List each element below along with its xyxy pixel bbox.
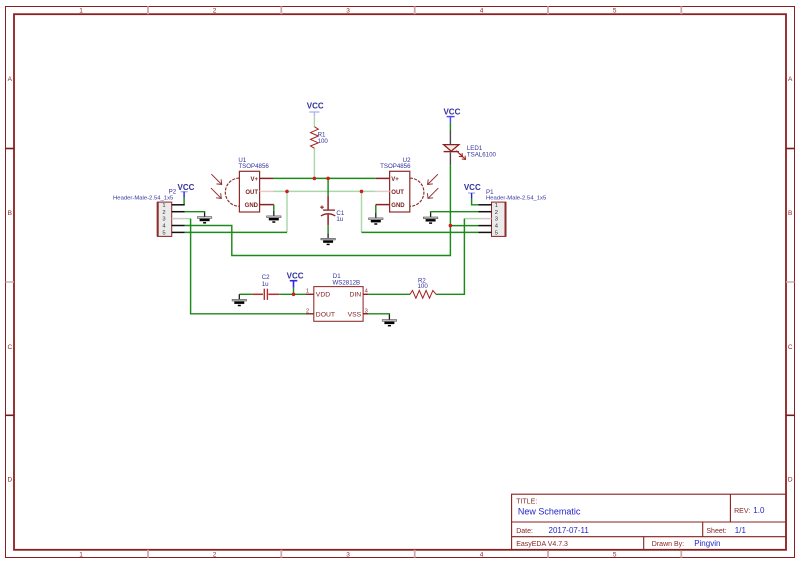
wire OUT net pale horizontal U1 to U2: [273, 190, 376, 192]
wire OUT net pale riser to P1 pin5 row: [361, 191, 363, 232]
D1 pin line 3 VSS: [363, 313, 368, 315]
svg-text:VSS: VSS: [348, 311, 362, 318]
svg-text:TSOP4856: TSOP4856: [238, 163, 269, 170]
wire C2 to ground: [239, 293, 252, 295]
svg-text:1: 1: [495, 203, 498, 209]
node junction VCC/C2/D1 VDD: [292, 293, 296, 297]
frame ruler ticks left: [6, 149, 15, 416]
svg-text:1/1: 1/1: [735, 526, 747, 535]
wire P1 pin2 to ground: [431, 211, 479, 214]
wire pale VCC to R1 top: [313, 116, 315, 126]
svg-text:B: B: [8, 210, 12, 217]
svg-text:Sheet:: Sheet:: [706, 528, 726, 535]
svg-text:1u: 1u: [336, 216, 343, 223]
svg-text:5: 5: [162, 231, 165, 237]
ground at P2 pin2: [197, 212, 211, 223]
U2 pin line V+: [376, 177, 390, 179]
svg-text:C: C: [788, 344, 793, 351]
ground at C2: [232, 294, 246, 305]
power VCC symbol at P2: [178, 183, 195, 198]
wire P2 pin3 riser down and across to DOUT: [191, 219, 306, 314]
IC U2 TSOP4856 body: [376, 171, 424, 212]
wire LED1 cathode down to pin4 junction: [449, 165, 451, 225]
D1 pin line 4 DIN: [363, 293, 368, 295]
wire P2 pin4 route to P1 pin4: [185, 226, 479, 256]
svg-text:3: 3: [346, 551, 350, 558]
svg-text:3: 3: [495, 217, 498, 223]
svg-text:2: 2: [495, 210, 498, 216]
svg-text:Pingvin: Pingvin: [694, 539, 720, 548]
wire VCC junction to D1 VDD: [279, 293, 306, 295]
LED1 TSAL6100 diode: [444, 131, 459, 166]
U1 pin line OUT pale: [260, 190, 273, 192]
svg-text:EasyEDA V4.7.3: EasyEDA V4.7.3: [516, 541, 568, 548]
IC D1 WS2812B body: [306, 287, 369, 322]
power VCC symbol at LED1: [443, 108, 460, 123]
svg-text:VCC: VCC: [287, 271, 304, 280]
U1 pin line GND: [260, 204, 274, 206]
wire pale R1 bottom to V+ rail: [313, 148, 315, 178]
svg-text:V+: V+: [391, 177, 399, 183]
svg-text:DIN: DIN: [349, 291, 361, 298]
svg-text:B: B: [788, 210, 792, 217]
svg-text:VCC: VCC: [443, 108, 460, 117]
svg-text:REV:: REV:: [734, 508, 750, 515]
frame ruler ticks bottom: [148, 550, 681, 558]
wire U2 GND elbow down: [375, 205, 377, 213]
wire C2 VCC stem lower part: [293, 288, 295, 295]
svg-text:3: 3: [346, 8, 350, 15]
svg-text:5: 5: [495, 231, 498, 237]
wire P2 pin3 pale stub: [185, 218, 191, 220]
svg-text:1: 1: [79, 551, 83, 558]
svg-text:TSOP4856: TSOP4856: [380, 163, 411, 170]
wire U1 GND elbow down: [273, 205, 275, 211]
svg-text:3: 3: [162, 217, 165, 223]
D1 pin line 1 VDD: [306, 293, 314, 295]
ground at C1: [321, 233, 335, 244]
frame zone letters right: [788, 76, 793, 484]
svg-text:A: A: [788, 76, 793, 83]
svg-text:4: 4: [480, 551, 484, 558]
U2 IR receive arrows: [427, 174, 438, 198]
svg-text:5: 5: [613, 8, 617, 15]
wire VCC net: V+ rail U1 to U2: [273, 177, 376, 179]
svg-text:1u: 1u: [262, 281, 269, 288]
node junction C1/V+ rail: [326, 177, 330, 181]
wire P1 pin3 pale stub: [464, 218, 478, 220]
svg-text:TITLE:: TITLE:: [516, 499, 537, 506]
svg-text:100: 100: [418, 283, 429, 290]
svg-text:VCC: VCC: [178, 183, 195, 192]
svg-text:2017-07-11: 2017-07-11: [549, 526, 590, 535]
svg-text:GND: GND: [245, 203, 259, 209]
svg-text:4: 4: [480, 8, 484, 15]
ground at U1 GND: [267, 211, 281, 222]
power VCC symbol at P1: [464, 183, 481, 199]
frame ruler ticks right: [786, 149, 795, 416]
svg-text:5: 5: [613, 551, 617, 558]
svg-text:2: 2: [213, 8, 217, 15]
frame zone numbers top: [79, 8, 617, 15]
WIRES: [184, 116, 478, 314]
node junction OUT/P1 pin5 riser: [360, 190, 364, 194]
node junction LED1 cathode/pin4 net: [449, 224, 453, 228]
svg-text:1: 1: [79, 8, 83, 15]
U2 pin line OUT pale: [376, 190, 390, 192]
U2 pin line GND: [376, 204, 390, 206]
wire OUT net pale riser to P2 pin5 row: [286, 191, 288, 232]
svg-text:2: 2: [306, 308, 309, 314]
wire VCC to LED1 anode: [449, 123, 451, 131]
ground at P1 pin2: [423, 212, 437, 223]
connector P1 Header-Male-2.54_1x5 body: [479, 202, 506, 236]
wire P2 pin5 to OUT riser: [185, 231, 287, 233]
capacitor C2: [253, 289, 280, 300]
wire C1 bottom to ground: [327, 225, 329, 233]
svg-text:TSAL6100: TSAL6100: [467, 152, 497, 159]
wire OUT riser to P1 pin5: [362, 231, 479, 233]
svg-text:OUT: OUT: [391, 190, 404, 196]
ground at D1 VSS: [382, 315, 396, 326]
node junction OUT/P2 pin5 riser: [285, 190, 289, 194]
power VCC symbol at R1 (pale): [307, 101, 324, 116]
resistor R1: [311, 127, 319, 149]
wire P2 pin1 to VCC: [183, 198, 185, 205]
P1 pin lines: [479, 205, 492, 233]
wire C1 top to V+ rail: [327, 178, 329, 196]
U1 IR receive arrows: [211, 174, 222, 198]
wire P2 pin2 to ground: [185, 211, 205, 214]
svg-text:2: 2: [213, 551, 217, 558]
svg-text:VCC: VCC: [307, 101, 324, 110]
D1 pin line 2 DOUT: [306, 313, 314, 315]
power VCC symbol at C2/D1: [287, 271, 304, 287]
title block: [512, 494, 786, 550]
LED1 emission arrows: [456, 151, 465, 160]
svg-text:C: C: [7, 344, 12, 351]
node junction R1/V+ rail: [313, 177, 317, 181]
IC U1 TSOP4856 body: [225, 171, 273, 212]
svg-text:Date:: Date:: [516, 528, 533, 535]
svg-text:1: 1: [306, 288, 309, 294]
frame zone numbers bottom: [79, 551, 617, 558]
svg-text:1: 1: [162, 203, 165, 209]
svg-text:A: A: [8, 76, 13, 83]
wire P1 pin3 riser down to R2: [436, 219, 464, 295]
svg-text:DOUT: DOUT: [316, 311, 335, 318]
svg-text:Drawn By:: Drawn By:: [652, 541, 684, 548]
svg-text:V+: V+: [250, 177, 258, 183]
svg-text:Header-Male-2.54_1x5: Header-Male-2.54_1x5: [486, 195, 547, 201]
capacitor C1 polarized: [320, 196, 335, 225]
svg-text:Header-Male-2.54_1x5: Header-Male-2.54_1x5: [113, 195, 174, 201]
svg-text:VCC: VCC: [464, 183, 481, 192]
P2 pin lines: [172, 205, 185, 233]
ground at U2 GND: [369, 213, 383, 224]
svg-text:VDD: VDD: [316, 291, 330, 298]
wire R2 to D1 DIN: [368, 293, 410, 295]
svg-text:New Schematic: New Schematic: [518, 506, 581, 516]
frame ruler ticks top: [148, 6, 681, 14]
wire P1 pin1 to VCC: [472, 199, 479, 205]
svg-text:OUT: OUT: [245, 190, 258, 196]
svg-text:GND: GND: [391, 203, 405, 209]
svg-text:3: 3: [365, 308, 368, 314]
svg-text:100: 100: [318, 138, 329, 145]
svg-text:2: 2: [162, 210, 165, 216]
svg-text:D: D: [7, 477, 12, 484]
connector P2 Header-Male-2.54_1x5 body: [157, 202, 184, 236]
wire D1 VSS to ground: [363, 313, 389, 316]
frame zone letters left: [7, 76, 12, 484]
svg-text:1.0: 1.0: [753, 506, 765, 515]
resistor R2: [410, 290, 436, 298]
U1 pin line V+: [260, 177, 273, 179]
C1 plus mark: [320, 206, 324, 208]
svg-text:D: D: [788, 477, 793, 484]
svg-text:WS2812B: WS2812B: [333, 279, 361, 286]
